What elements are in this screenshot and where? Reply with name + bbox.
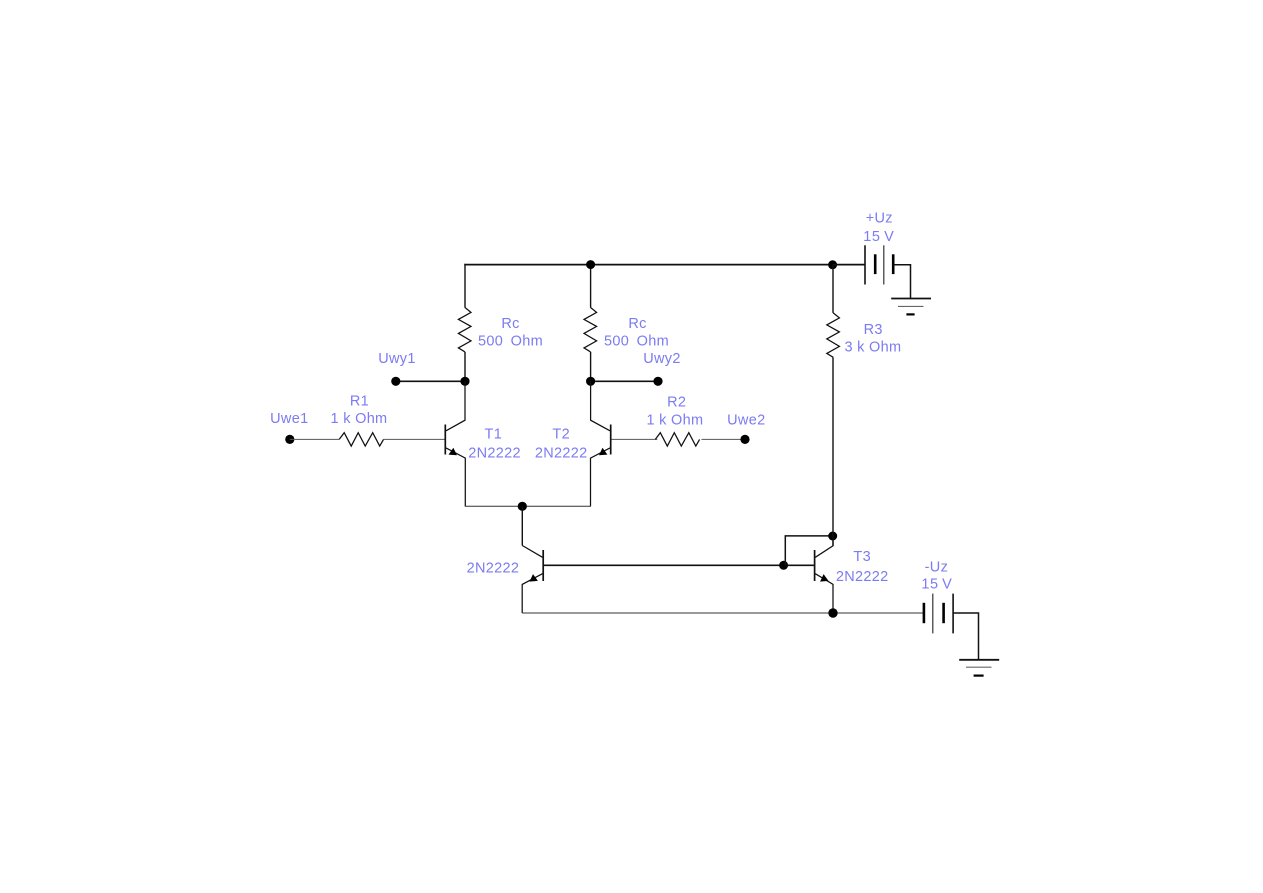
transistor Q4 emitter diagonal <box>522 574 542 613</box>
wire R3 top lead <box>832 265 834 313</box>
svg-text:T1: T1 <box>485 427 503 443</box>
resistor Rc (right, 500 Ohm) <box>584 307 597 351</box>
junction dot bottom rail / T3 emitter <box>828 608 837 617</box>
junction dot emitter rail <box>518 502 527 511</box>
junction dot top rail / R3 / +Uz <box>828 260 837 269</box>
svg-text:R1: R1 <box>350 394 369 410</box>
resistor R1 1 k Ohm <box>339 433 383 446</box>
wire Rc1 bottom lead <box>464 352 466 382</box>
wire Rc2 top lead <box>590 264 592 308</box>
svg-text:+Uz: +Uz <box>866 211 893 227</box>
node Uwe2 terminal dot <box>740 435 749 444</box>
node Uwy1 terminal dot <box>391 377 400 386</box>
svg-text:500 Ohm: 500 Ohm <box>604 334 669 350</box>
transistor T1 emitter diagonal <box>446 448 465 506</box>
svg-text:T2: T2 <box>552 427 570 443</box>
transistor T2 emitter arrow <box>599 448 607 456</box>
wire +Uz to ground <box>893 265 910 299</box>
svg-text:R3: R3 <box>864 322 883 338</box>
transistor T1 2N2222 (base bar) <box>444 425 446 455</box>
svg-text:2N2222: 2N2222 <box>836 569 889 585</box>
junction dot T3 collector <box>828 532 837 541</box>
battery +Uz lead left <box>833 264 865 266</box>
transistor T1 collector diagonal <box>446 381 465 431</box>
transistor Q4 emitter arrow <box>530 574 538 582</box>
battery -Uz plates <box>923 603 926 623</box>
junction dot T3 base <box>779 561 788 570</box>
svg-text:Uwy1: Uwy1 <box>378 351 415 367</box>
svg-text:R2: R2 <box>667 395 686 411</box>
junction dot Rc2/collector/Uwy2 <box>586 377 595 386</box>
wire Rc2 bottom lead <box>590 352 592 382</box>
transistor Q4 collector diagonal <box>522 546 542 558</box>
transistor T3 emitter diagonal <box>815 574 833 613</box>
wire Rc1 top lead <box>464 264 466 308</box>
junction dot Rc1/collector/Uwy1 <box>460 377 469 386</box>
svg-text:2N2222: 2N2222 <box>535 445 588 461</box>
svg-text:15 V: 15 V <box>863 229 894 245</box>
svg-text:-Uz: -Uz <box>925 559 948 575</box>
svg-text:Uwe1: Uwe1 <box>270 411 308 427</box>
svg-text:T3: T3 <box>853 549 871 565</box>
ground (+Uz) <box>891 298 931 300</box>
wire bottom rail <box>522 612 924 614</box>
svg-text:15 V: 15 V <box>921 576 952 592</box>
battery +Uz plates <box>864 245 866 284</box>
wire Uwe1 to R1 <box>290 438 339 440</box>
svg-text:3 k Ohm: 3 k Ohm <box>844 340 901 356</box>
wire mirror base bus <box>544 564 814 566</box>
svg-text:Uwe2: Uwe2 <box>727 412 765 428</box>
wire T3 base-collector loop <box>785 536 832 565</box>
transistor T1 emitter arrow <box>449 448 457 456</box>
wire emitters joining rail <box>465 505 591 507</box>
resistor Rc (left, 500 Ohm) <box>458 307 471 351</box>
svg-text:Rc: Rc <box>628 316 646 332</box>
wire -Uz to ground <box>953 613 978 660</box>
svg-text:Rc: Rc <box>501 316 519 332</box>
svg-text:1 k Ohm: 1 k Ohm <box>646 412 703 428</box>
transistor T2 collector diagonal <box>591 381 610 431</box>
transistor T3 collector diagonal <box>815 540 833 557</box>
wire tail down to current mirror <box>521 506 523 545</box>
wire R1 to T1 base <box>383 438 444 440</box>
transistor T2 emitter diagonal <box>591 448 611 506</box>
junction dot top rail / Rc2 <box>586 260 595 269</box>
node Uwe1 terminal dot <box>285 435 294 444</box>
node Uwy1 wire <box>396 380 465 382</box>
wire top supply rail <box>464 264 865 266</box>
wire T2 base to R2 <box>611 438 657 440</box>
svg-text:2N2222: 2N2222 <box>467 560 520 576</box>
node Uwy2 wire <box>591 380 658 382</box>
resistor R3 3 k Ohm <box>827 313 840 357</box>
transistor T3 emitter arrow <box>820 574 828 582</box>
svg-text:1 k Ohm: 1 k Ohm <box>331 411 388 427</box>
transistor T3 2N2222 (base bar) <box>814 550 816 581</box>
wire R3 bottom lead to T3 collector <box>832 357 834 546</box>
wire R2 to Uwe2 <box>702 438 746 440</box>
ground (-Uz) <box>959 659 999 661</box>
svg-text:500 Ohm: 500 Ohm <box>478 334 543 350</box>
resistor R2 1 k Ohm <box>655 433 699 446</box>
transistor T2 2N2222 (base bar) <box>610 425 612 455</box>
svg-text:2N2222: 2N2222 <box>468 445 521 461</box>
node Uwy2 terminal dot <box>653 377 662 386</box>
svg-text:Uwy2: Uwy2 <box>643 351 680 367</box>
transistor Q4 2N2222 mirror-left (base bar) <box>542 550 544 581</box>
